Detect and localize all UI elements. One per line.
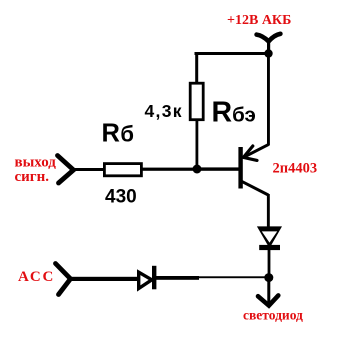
wire: top rail [195,52,270,55]
diode D1 [139,266,155,290]
wire: Rб to base node [142,168,198,171]
wire: Rbe bottom stub [196,121,199,167]
input connector (выход сигн.) [58,156,74,184]
svg-text:430: 430 [105,187,137,208]
emitter arrowhead (points into base: PNP) [243,146,257,160]
wire: diode to output node (thick then thin) [156,276,199,280]
resistor Rб body (430) [104,164,141,176]
LED diode (светодиод) [257,226,282,250]
wire: collector down to LED [267,194,270,228]
collector diagonal [242,181,268,195]
resistor Rбэ body (4,3к) [190,83,203,120]
wire: АСС to diode D1 (thick) [70,277,138,281]
node: +12V junction dot [264,49,272,57]
output arrow (to светодиод) [258,278,278,306]
wire: +12V down to emitter [267,53,270,146]
svg-text:4,3к: 4,3к [145,101,183,121]
node B: base junction dot [193,165,202,174]
wire: input to Rб [73,168,105,171]
wire: base node to transistor base [197,167,239,170]
wire: Rbe top stub [195,53,198,82]
transistor Q1 (2п4403, PNP) [241,145,269,195]
svg-text:2п4403: 2п4403 [273,161,318,177]
svg-text:АСС: АСС [18,269,55,285]
svg-text:светодиод: светодиод [243,308,303,323]
svg-text:Rбэ: Rбэ [212,96,256,128]
svg-text:Rб: Rб [102,120,135,148]
power connector +12V [257,34,281,50]
node C: LED cathode junction dot [264,273,273,282]
svg-text:сигн.: сигн. [15,169,50,185]
emitter diagonal [244,145,269,158]
wire: LED to output node [268,250,271,275]
connector АСС [56,264,71,295]
svg-text:+12В АКБ: +12В АКБ [227,13,291,28]
base bar [238,147,242,189]
